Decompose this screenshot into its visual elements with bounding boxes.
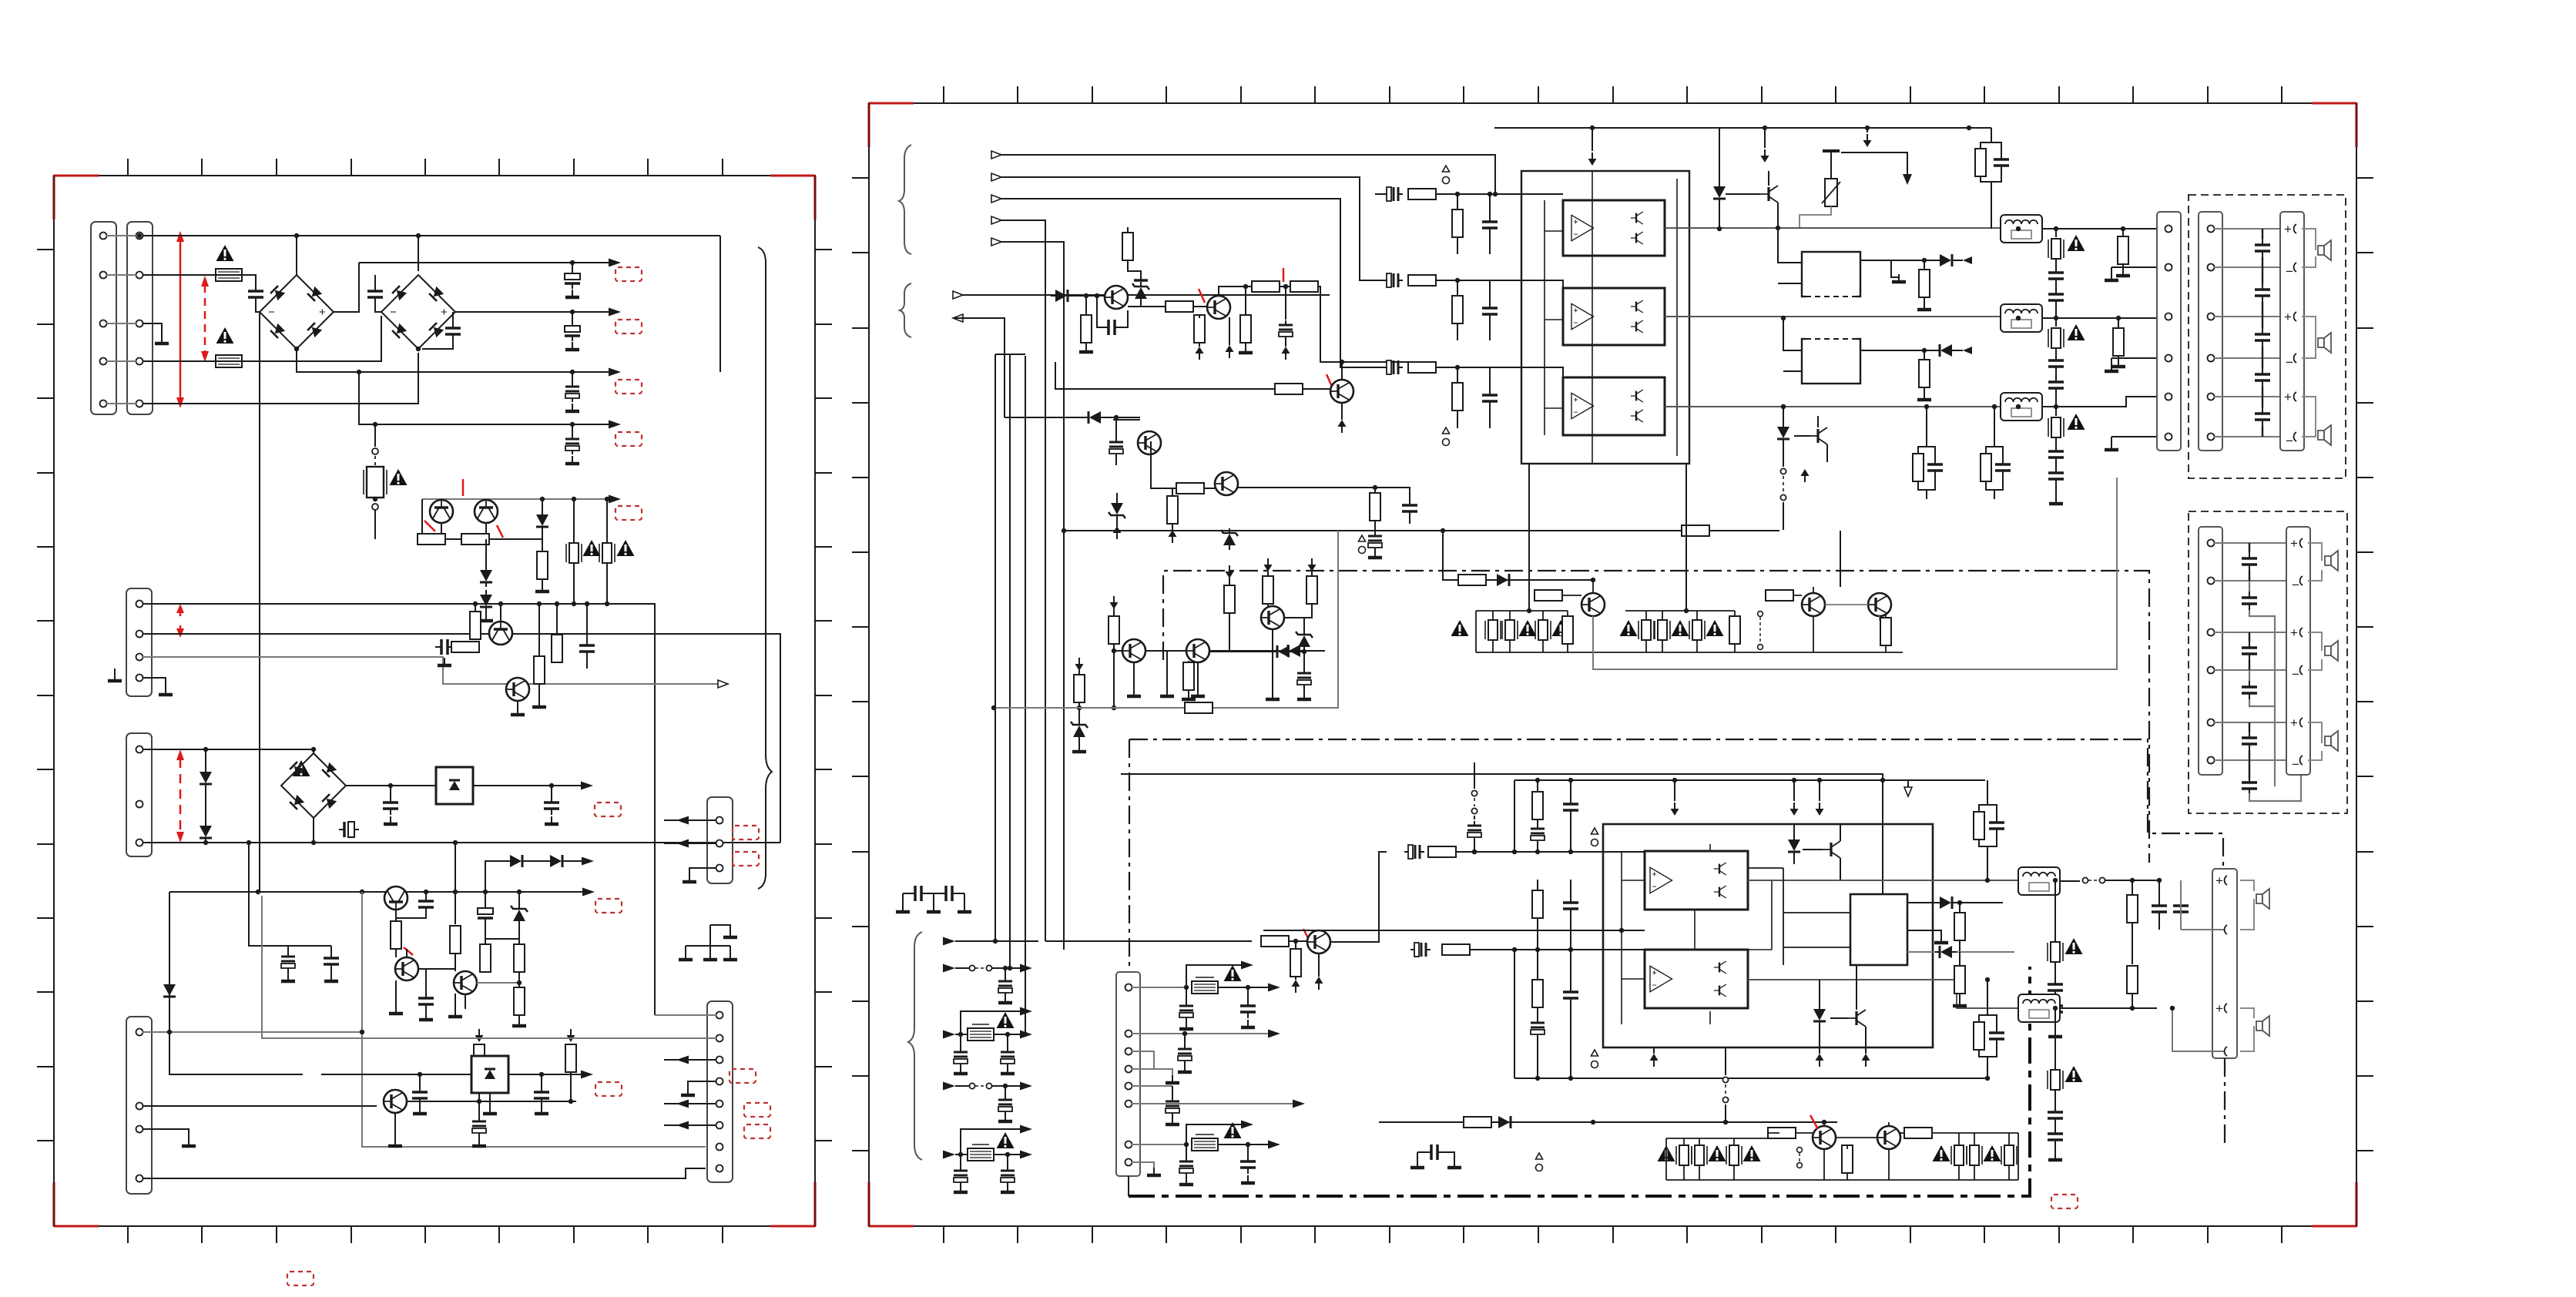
speaker SP1 xyxy=(2302,229,2316,267)
interlock below xyxy=(1783,444,1784,467)
interlock vertical xyxy=(1474,762,1475,789)
emitter row left: warn xyxy=(1658,1145,1675,1161)
left panel red corner accents xyxy=(54,175,99,177)
SMPS cap C108 xyxy=(435,639,454,655)
transistor Q203b xyxy=(1303,388,1330,390)
bottom L filter LF5 xyxy=(2018,994,2060,1022)
caps under FL3 xyxy=(2055,437,2057,447)
divider R210 xyxy=(1452,296,1463,323)
warning triangle WF5 xyxy=(2065,1066,2083,1082)
IC202 left wires xyxy=(1748,868,1850,965)
line y1158 xyxy=(169,891,589,893)
supply arrow 3 xyxy=(1867,128,1868,132)
zobel R242+C224 right lower xyxy=(1974,1022,1984,1050)
fuse FL1 xyxy=(2055,229,2057,237)
wire input low xyxy=(963,294,1330,296)
warning triangle WF1 xyxy=(2068,235,2085,251)
amplifier IC201 outline xyxy=(1521,171,1689,464)
speaker connector CN201 xyxy=(2157,212,2181,451)
warning triangle W4 xyxy=(583,540,601,556)
svg-text:+: + xyxy=(2290,625,2298,640)
fuse FE11 xyxy=(1655,620,1670,640)
capacitor C102 xyxy=(374,275,376,287)
capacitor C105 xyxy=(452,312,454,323)
dash-dot bus y960 xyxy=(1129,739,2223,867)
grounds row xyxy=(389,1006,403,1014)
label box (red) L12 xyxy=(744,1103,770,1117)
svg-text:+: + xyxy=(319,306,326,319)
bl row5 bypass arrows xyxy=(961,1129,1021,1155)
big curly brace xyxy=(758,247,772,889)
line y753 xyxy=(1443,531,1593,580)
junction dots mid xyxy=(203,747,554,845)
resistor R225 xyxy=(1110,596,1119,609)
row1 feed wire to Q213 xyxy=(1045,940,1252,942)
gnd stub relay1 xyxy=(1891,260,1899,277)
bl row2 arrow xyxy=(943,964,955,973)
resistor RE2 (base) xyxy=(1535,590,1562,601)
warning triangle WE5 xyxy=(1672,620,1689,636)
ground pin4 xyxy=(688,1081,716,1091)
coupling ch3: cap C208 xyxy=(1383,360,1403,374)
input arrow 2 xyxy=(991,173,1001,181)
wire pin1-pin1 links xyxy=(106,236,136,404)
svg-text:−: − xyxy=(2286,434,2293,448)
wire pin5 bottom AC xyxy=(143,353,418,404)
connector CN102 pins strip B xyxy=(136,233,143,407)
speaker box2 wires xyxy=(2214,543,2286,760)
divider R235 xyxy=(1532,792,1543,819)
svg-text:+: + xyxy=(2284,310,2292,324)
bl row2 interlock xyxy=(969,965,991,970)
amp2 out ch1 xyxy=(1748,880,2018,881)
out line1 to connector xyxy=(2042,228,2157,230)
svg-text:+: + xyxy=(2284,222,2292,236)
electro C216 xyxy=(1474,816,1475,819)
transistor Q205 xyxy=(1138,431,1161,454)
cap C218 xyxy=(1563,798,1578,816)
CN202 pin5 xyxy=(1132,1085,1172,1087)
right panel border ticks xyxy=(852,86,2373,1243)
resistor R208b xyxy=(1275,384,1303,394)
trunk x1331 xyxy=(1025,356,1026,1034)
input ch2 electro C219 xyxy=(1410,943,1431,957)
zener DB1 xyxy=(1071,720,1088,742)
cap C112 xyxy=(551,786,552,796)
connector CN106 (right small 3pin) xyxy=(707,797,733,883)
ground under D104 xyxy=(485,539,487,616)
wire x470 down xyxy=(362,1032,706,1147)
resistor R103 xyxy=(542,531,543,551)
connector CN103 (4pin) xyxy=(126,588,152,696)
capacitor C101 xyxy=(248,285,263,303)
vertical to IC202 xyxy=(1882,780,1883,894)
resistor R207b xyxy=(1290,281,1318,292)
resistor R233 xyxy=(1290,949,1301,977)
coupling ch1: cap C204 xyxy=(1383,187,1403,201)
warn xyxy=(1743,1145,1761,1161)
transistor Q206 xyxy=(1215,472,1238,495)
resistor R113 xyxy=(475,1029,484,1042)
left panel border ticks xyxy=(37,159,832,1243)
bl row3 caps xyxy=(960,1034,961,1047)
relay RY2 input wires xyxy=(1783,318,1802,371)
chassis ground floating xyxy=(114,669,116,676)
zobel R213+C210 xyxy=(1975,149,1986,176)
Q4m emitter to row xyxy=(1592,616,1594,652)
relay RY1 output xyxy=(1860,260,1935,261)
fuse FE3 xyxy=(1726,1145,1742,1165)
connector CN107 (bottom right 8pin) xyxy=(707,1001,733,1182)
CN202 pin7 filter xyxy=(1132,1144,1186,1145)
test point TP3 xyxy=(1359,535,1366,554)
mid input line y1208 xyxy=(1263,930,1645,931)
wire into CN203 pin2 xyxy=(2181,880,2223,930)
push-pull pair 3 xyxy=(1631,390,1643,402)
transistor Q216 xyxy=(1813,1126,1836,1149)
ground under reg2 xyxy=(489,1093,491,1109)
bl row3 filter xyxy=(968,1028,994,1041)
cap C222 xyxy=(1563,986,1578,1004)
input arrow 4 xyxy=(991,216,1001,224)
relay RY1 input wires xyxy=(1778,228,1802,283)
L filter block LF1 xyxy=(2001,215,2042,243)
diode D212b xyxy=(1492,574,1514,586)
wire bridge2 top feed xyxy=(418,236,419,271)
L filter block LF2 xyxy=(2001,304,2042,332)
wire to IC ch3 xyxy=(1436,367,1563,397)
zener D208 xyxy=(1109,498,1125,520)
transistor Q107 xyxy=(454,971,477,994)
wire Q201 out xyxy=(1128,306,1168,307)
warning triangle W3 xyxy=(390,469,408,485)
transistor Q106 xyxy=(395,957,418,980)
wire Q108 collector bus xyxy=(407,1101,576,1102)
red dashed measure arrow V2 xyxy=(204,285,206,353)
divider R237 xyxy=(1532,890,1543,918)
caps C226 xyxy=(2173,900,2189,918)
label box (red) L5 xyxy=(615,506,642,520)
label box (red) L4 xyxy=(615,432,642,446)
arrow into pin5 xyxy=(664,1103,716,1104)
warning triangle W5 xyxy=(617,540,635,556)
transistor Q203 xyxy=(1760,186,1778,203)
label box (red) L3 xyxy=(615,380,642,394)
svg-text:−: − xyxy=(2292,757,2299,772)
resistor R226 xyxy=(1226,565,1234,578)
junction dots top xyxy=(294,233,575,427)
wire to IC ch2 xyxy=(1436,280,1563,308)
fuse link column: pin circles + dashes xyxy=(374,424,376,447)
trunk x335 bottom joins y1158 xyxy=(259,786,260,892)
wires Q216-Q217 xyxy=(1824,1122,1889,1180)
wire input2 xyxy=(1001,177,1384,280)
CN202 pin6 xyxy=(1132,1103,1294,1104)
zener D211 xyxy=(1296,630,1313,652)
red service mark xyxy=(404,947,413,955)
Q203b emitter xyxy=(1341,403,1343,420)
svg-text:−: − xyxy=(390,306,397,319)
wire reg out xyxy=(473,785,587,786)
input brace 2 xyxy=(900,283,911,337)
fuse FL2 xyxy=(2055,318,2057,327)
bridge3 bottom to y1094 xyxy=(313,818,314,843)
trunk top links xyxy=(995,354,1025,355)
zener D209 xyxy=(1221,528,1238,550)
cap C220 xyxy=(1563,897,1578,915)
wire x323 lower trunk xyxy=(249,843,331,946)
Q203b collector xyxy=(1341,362,1343,380)
Q213 out wire xyxy=(1330,852,1387,942)
wire bus y784 xyxy=(143,604,655,1015)
line y1457 xyxy=(1379,1121,1837,1123)
fuse FE4 xyxy=(1951,1145,1967,1165)
diode D218 xyxy=(1494,1116,1515,1128)
cap C118 xyxy=(324,952,339,970)
resistor RE3 xyxy=(1729,616,1740,644)
bottom-left brace xyxy=(908,932,922,1160)
speaker SP8 xyxy=(2240,1008,2254,1051)
bottom L filter LF4 xyxy=(2018,867,2060,895)
resistor R243 xyxy=(1464,1117,1491,1128)
cap C110 xyxy=(259,767,260,786)
interlock small xyxy=(1797,1148,1803,1153)
line y505 stage xyxy=(1055,362,1275,389)
svg-text:+: + xyxy=(2215,1001,2223,1016)
gnd stub conn pin4 xyxy=(2111,358,2157,367)
wire bus y306 xyxy=(143,235,720,236)
wire input1 xyxy=(1001,155,1495,194)
op-amp U1b xyxy=(1571,303,1594,329)
transistor Q102 xyxy=(475,500,498,523)
gnd stub IC202 xyxy=(1907,930,1941,938)
fuse FE5 xyxy=(1967,1145,1982,1165)
wires Q208 Q209 xyxy=(1134,651,1198,693)
transistor Q4m xyxy=(1581,593,1605,616)
fuse FE8 xyxy=(1502,620,1518,640)
line into LF5 xyxy=(2060,1007,2157,1009)
heavy dash-dot gnd bus bottom xyxy=(1129,967,2030,1196)
resistor R215 xyxy=(1919,360,1930,387)
resistor R223 xyxy=(1682,525,1709,536)
speaker box1 caps xyxy=(2255,239,2270,257)
output line 4 xyxy=(359,372,615,424)
relay RY2 output xyxy=(1860,350,1935,351)
warning triangle WB3 xyxy=(1224,965,1242,981)
red service mark xyxy=(1303,929,1311,944)
coupling ch3: resistor R211 xyxy=(1408,362,1436,373)
warning triangle WE1 xyxy=(1451,620,1469,636)
ground Q108 xyxy=(394,1113,396,1141)
SMPS transistor Q104 xyxy=(506,678,529,701)
label box (red) L10 xyxy=(733,852,759,866)
resistor R230 xyxy=(1183,662,1194,690)
zobel R241+C223 right xyxy=(1974,812,1984,840)
red label box xyxy=(2051,1195,2078,1208)
amp2 diode D214 xyxy=(1788,835,1800,856)
dashed speaker box 1 xyxy=(2189,195,2346,478)
diode D103 xyxy=(480,565,492,587)
wire pin2 y1436 xyxy=(143,1105,377,1107)
resistor chain R248 xyxy=(2127,966,2138,994)
ground Q212 xyxy=(1272,629,1273,695)
CN202 shell to bus xyxy=(1128,1176,1129,1196)
connector CN105 (bottom left) xyxy=(126,1017,152,1194)
warning triangle WF2 xyxy=(2068,324,2085,340)
warning triangle WF3 xyxy=(2068,414,2085,430)
cap C115 xyxy=(418,992,434,1010)
test point TP5 xyxy=(1592,1050,1598,1068)
supply arrow 2 xyxy=(1764,128,1766,148)
zener D112 xyxy=(511,904,528,926)
resistor R102 xyxy=(461,534,489,545)
op-amp U2a xyxy=(1650,867,1672,893)
wire output low xyxy=(953,318,1005,417)
speaker connector CN203 xyxy=(2212,869,2237,1058)
dash-dot signal gnd bus upper xyxy=(1163,571,2149,863)
regulator IC101 xyxy=(436,767,473,804)
capacitor C104 xyxy=(572,312,573,322)
resistor R108 xyxy=(395,910,397,921)
input arrow low (to panel) xyxy=(953,291,963,299)
connector CN102 strip B xyxy=(127,222,153,414)
gnd bar xyxy=(1823,149,1840,152)
zener D202 xyxy=(1132,282,1149,303)
warning triangle WE3 xyxy=(1552,620,1570,636)
amp2 transistor Q214 xyxy=(1823,841,1840,858)
supply arrow Q202 xyxy=(1229,317,1230,345)
transistor Q105 xyxy=(384,886,408,910)
resistor R245 xyxy=(1842,1145,1853,1173)
diode D210 xyxy=(1283,645,1305,657)
resistor R221 xyxy=(1167,496,1178,524)
resistor R205 xyxy=(1240,315,1251,343)
interlock below amp2 xyxy=(1725,1047,1726,1075)
capacitor C106 xyxy=(572,372,573,382)
resistor R222 xyxy=(1370,493,1380,521)
bl row3 bypass arrows xyxy=(961,1011,1021,1034)
red service mark xyxy=(1199,289,1205,303)
cap C201 xyxy=(1102,320,1121,335)
gnd stub conn pin2 xyxy=(2111,267,2157,276)
resistor R203 xyxy=(1166,301,1193,312)
bl row2 cap xyxy=(1005,968,1006,977)
label box (red) L1 xyxy=(615,267,642,281)
dashed speaker box 2 xyxy=(2189,511,2347,813)
push-pull pair 2 xyxy=(1631,300,1643,313)
svg-text:−: − xyxy=(2292,578,2299,592)
bl row4 cap xyxy=(1005,1086,1006,1095)
svg-text:−: − xyxy=(2292,667,2299,682)
wire pin3 y1094 xyxy=(143,842,780,843)
cap C119 xyxy=(472,1117,486,1137)
resistor R227 xyxy=(1264,558,1273,571)
fuse FL4 xyxy=(2048,942,2063,962)
bl arrow row1 xyxy=(943,937,955,946)
wire bridge3 out y1020 xyxy=(346,785,436,786)
cap C121 xyxy=(541,1074,542,1086)
wire pin3 to mid arrow xyxy=(143,657,719,684)
emitter row right: warn xyxy=(1933,1145,1950,1161)
fuse FE7 xyxy=(1485,620,1501,640)
caps under FL2 xyxy=(2055,348,2057,356)
label box (red) L2 xyxy=(615,320,642,333)
open arrow marker xyxy=(1907,780,1909,787)
resistor R201 xyxy=(1122,233,1133,260)
cap C111 xyxy=(390,786,391,796)
mid cluster right: transistor Q212 xyxy=(1261,606,1284,629)
lower mid: diode D213 feed xyxy=(995,940,1038,942)
capacitor C103 xyxy=(572,263,573,270)
divider R212 xyxy=(1452,383,1463,411)
label box (red) L9 xyxy=(733,826,759,840)
resistor R206 xyxy=(1252,281,1280,292)
test point TP4 xyxy=(1592,828,1598,846)
caps under FL4 xyxy=(2054,962,2056,980)
warning triangle W2 xyxy=(216,327,234,344)
amp2 diode D217 + Q215 xyxy=(1813,1004,1826,1026)
svg-text:−: − xyxy=(268,306,275,319)
diode branch: D109 D110 xyxy=(485,861,505,892)
op-amp U1a xyxy=(1571,215,1594,240)
speaker SP2 xyxy=(2302,317,2316,358)
pol cap C203 xyxy=(1283,284,1288,289)
bridge rectifier D101 xyxy=(260,275,334,349)
speaker box2 caps xyxy=(2242,552,2257,571)
interlock column xyxy=(1758,612,1763,617)
red service mark xyxy=(1810,1115,1818,1129)
amp2 outer box xyxy=(1603,824,1933,1047)
wire input3 xyxy=(1001,199,1384,367)
junction dots y1158 xyxy=(256,890,488,894)
wires Q106-Q107 xyxy=(396,949,465,1009)
amp2 out ch2 xyxy=(1748,980,2018,1008)
transistor Q108 xyxy=(384,1090,407,1113)
resistor R109 xyxy=(450,926,461,953)
speaker box2 connector strip xyxy=(2199,527,2222,775)
fuse FL3 xyxy=(2055,407,2057,416)
wire into amp ch1 xyxy=(1456,851,1645,853)
label box (red) L6 xyxy=(595,803,621,816)
ground CN106 pin3 xyxy=(689,868,716,877)
wire to IC ch1 xyxy=(1436,193,1563,195)
op-amp U1c xyxy=(1571,393,1594,418)
vertical x591 feed xyxy=(454,843,456,924)
svg-text:+: + xyxy=(2215,873,2223,888)
zobel pair ch3 xyxy=(1981,454,1991,481)
fuse FE2 xyxy=(1692,1145,1707,1165)
bottom rail bus y1400 xyxy=(1514,1077,1985,1079)
resistor R216 xyxy=(2118,236,2128,264)
junction dots bottom xyxy=(167,1030,573,1104)
right panel border xyxy=(869,103,2356,1226)
wire bus y823 xyxy=(143,634,780,843)
bl row5 arrow xyxy=(943,1151,955,1159)
resistor RE1 xyxy=(1562,616,1573,644)
wire pin1 y973 xyxy=(143,749,314,753)
bridge rectifier D108 xyxy=(281,753,346,818)
svg-text:+: + xyxy=(2290,536,2298,551)
red service marks xyxy=(462,479,465,496)
divider R238 xyxy=(1532,980,1543,1007)
diode D201 xyxy=(1051,290,1072,302)
coupling ch2: cap C206 xyxy=(1383,273,1403,287)
resistor R240 xyxy=(1954,966,1965,994)
cap C213 xyxy=(1402,499,1417,518)
amp2 ch2 block xyxy=(1645,950,1748,1008)
pol cap C116 xyxy=(478,903,493,923)
connector CN104 (3pin bottom-left) xyxy=(126,733,152,856)
